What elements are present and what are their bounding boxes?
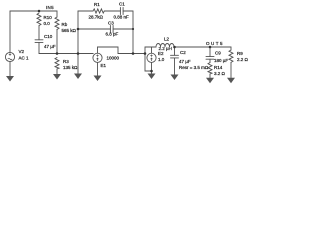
- svg-text:2.2 Ω: 2.2 Ω: [237, 57, 249, 62]
- wire C10 down and main mid wire: [39, 42, 93, 53]
- wire C1 to right corner: [123, 10, 133, 12]
- wire C9 drop: [209, 47, 211, 57]
- capacitor C2 plates: [171, 54, 179, 56]
- wire R9 corner: [230, 47, 232, 50]
- wire C2 to ground: [174, 58, 176, 75]
- op-amp E1 circle: [93, 53, 102, 62]
- node dot L2-C2: [173, 46, 176, 49]
- node dot OUT5: [209, 46, 212, 49]
- ground arrow R3: [53, 74, 61, 80]
- svg-text:3.2 Ω: 3.2 Ω: [214, 71, 226, 76]
- wire E2 bottom loop: [145, 54, 152, 74]
- capacitor C3 plates: [109, 26, 111, 33]
- svg-text:135 kΩ: 135 kΩ: [63, 65, 78, 70]
- ground arrow feedback left: [74, 74, 82, 80]
- capacitor C10 plates: [35, 39, 43, 41]
- svg-text:IN5: IN5: [46, 5, 54, 10]
- svg-text:OUT5: OUT5: [206, 41, 224, 46]
- svg-text:Rb: Rb: [62, 22, 68, 27]
- svg-text:47 µF: 47 µF: [179, 59, 191, 64]
- svg-text:R9: R9: [237, 51, 243, 56]
- resistor R14 zigzag: [208, 63, 212, 75]
- svg-text:1.0: 1.0: [158, 57, 165, 62]
- wire R3 to ground: [56, 69, 58, 75]
- svg-text:C2: C2: [180, 50, 186, 55]
- wire R14 to ground: [209, 74, 211, 78]
- svg-text:565 kΩ: 565 kΩ: [62, 28, 77, 33]
- node dot IN5 junction: [38, 10, 41, 13]
- svg-text:R10: R10: [44, 15, 53, 20]
- ground arrow E2: [148, 74, 156, 80]
- resistor R3 zigzag: [55, 58, 59, 70]
- ground arrow R14: [206, 78, 214, 84]
- wire E2 input step: [145, 47, 156, 54]
- wire R10 to C10: [38, 26, 40, 40]
- wire feedback right vertical: [132, 11, 134, 54]
- ground arrow V2: [6, 76, 14, 82]
- source V2 circle: [5, 52, 14, 61]
- svg-text:L2: L2: [164, 37, 170, 42]
- resistor R1 zigzag: [93, 9, 104, 13]
- node dot feedback right C3: [132, 28, 134, 30]
- svg-text:C1: C1: [119, 1, 125, 6]
- node dot feedback left main: [77, 52, 80, 55]
- source E2 symbol plus arrow: [150, 55, 152, 57]
- wire V2 riser: [9, 11, 11, 53]
- node dot feedback left C3: [77, 28, 80, 31]
- node dot E2 ground: [150, 70, 153, 73]
- svg-text:28.7kΩ: 28.7kΩ: [89, 15, 104, 20]
- node dot feedback right main: [132, 52, 135, 55]
- wire feedback left vertical: [77, 11, 79, 74]
- svg-text:0.0: 0.0: [44, 21, 51, 26]
- node dot Rb main wire: [56, 52, 59, 55]
- resistor R10 zigzag: [37, 13, 41, 26]
- inductor L2 humps: [156, 44, 174, 48]
- capacitor C9 plates: [206, 56, 214, 58]
- op-amp E1 output stub and over-wire: [98, 47, 146, 54]
- ground arrow R9: [227, 78, 235, 84]
- svg-text:6.8 pF: 6.8 pF: [106, 32, 119, 37]
- wire C3 left: [78, 28, 110, 30]
- svg-text:10000: 10000: [107, 56, 120, 61]
- wire R9 to ground: [230, 62, 232, 77]
- wire feedback top left: [78, 10, 93, 12]
- resistor R9 zigzag: [229, 50, 233, 62]
- wire L2 to OUT5: [174, 46, 231, 48]
- svg-text:47 µF: 47 µF: [44, 44, 56, 49]
- svg-text:C3: C3: [108, 21, 114, 26]
- source E2 circle: [147, 53, 156, 62]
- svg-text:R1: R1: [94, 2, 100, 7]
- node dot E2 input: [144, 52, 147, 55]
- op-amp E1 ground wire: [97, 62, 99, 75]
- wire V2 to ground: [9, 62, 11, 76]
- wire E2 top stub: [151, 47, 153, 53]
- ground arrow E1: [94, 76, 102, 82]
- op-amp E1 symbol plus arrow: [96, 55, 98, 57]
- svg-text:0.88 nF: 0.88 nF: [114, 15, 130, 20]
- wire C9 to R14: [209, 59, 211, 62]
- resistor Rb 565k zigzag: [55, 17, 59, 30]
- svg-text:R3: R3: [63, 59, 69, 64]
- wire Rb bottom: [56, 30, 58, 54]
- wire C3 right: [113, 28, 133, 30]
- wire C2 drop: [174, 47, 176, 55]
- svg-text:Resr = 3.5 mΩ: Resr = 3.5 mΩ: [179, 65, 209, 70]
- svg-text:AC 1: AC 1: [19, 56, 30, 61]
- svg-text:V2: V2: [19, 49, 25, 54]
- svg-text:E1: E1: [101, 63, 107, 68]
- ground arrow C2: [171, 75, 179, 81]
- svg-text:R14: R14: [214, 65, 223, 70]
- svg-text:C9: C9: [215, 51, 221, 56]
- wire R1 to C1: [104, 10, 120, 12]
- svg-text:E2: E2: [158, 51, 164, 56]
- svg-text:C10: C10: [44, 34, 53, 39]
- wire Rb top stub: [56, 11, 58, 17]
- source V2 symbol plus and sine: [9, 53, 11, 55]
- svg-text:2.2 µH: 2.2 µH: [159, 46, 172, 51]
- capacitor C1 plates: [119, 8, 121, 15]
- svg-text:180 µF: 180 µF: [214, 58, 228, 63]
- wire top from V2 to Rb: [10, 10, 57, 12]
